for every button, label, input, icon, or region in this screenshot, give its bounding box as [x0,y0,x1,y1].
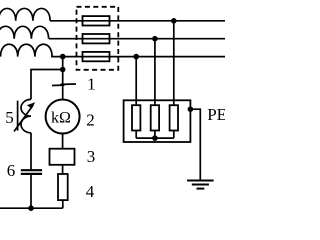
wire block 3 to resistor 4 [62,165,64,174]
wire line B (middle phase) [49,38,225,40]
wire Rc to star bus [173,131,175,139]
resistor Rb [151,105,159,130]
bottom bus wire [0,207,63,209]
ground bar 3 [197,188,205,190]
phase winding coil L2 [0,26,49,38]
svg-text:kΩ: kΩ [51,110,71,127]
wire megohmmeter to block 3 [62,134,64,149]
svg-text:1: 1 [87,75,96,94]
wire branch to the left [31,70,63,100]
node on line A [171,18,177,24]
ground bar 2 [192,184,209,186]
wire capacitor to bottom bus [30,174,32,208]
resistor 4 [58,174,68,200]
node branch junction [60,67,66,73]
wire inductor to capacitor [30,133,32,170]
drop wire from line C [135,57,137,106]
probe tick [52,84,65,86]
star point bus [136,137,174,139]
wire Rb to star bus [154,131,156,139]
megohmmeter 2 circle [46,100,80,134]
fuse block dashed enclosure 1 [77,7,119,70]
variable inductor 5 arrow [14,105,33,131]
fuse F1 [83,16,110,25]
fuse F2 [83,34,110,43]
wire line C (bottom phase) [51,56,225,58]
resistor Rc [170,105,178,130]
wire Ra to star bus [135,131,137,139]
phase winding coil L3 [1,44,53,56]
wire PE to ground [190,109,200,180]
wire from line C down to megohmmeter [62,57,64,100]
svg-text:PE: PE [207,105,225,124]
load box enclosure [124,100,191,142]
node on line B [152,36,158,42]
svg-text:3: 3 [87,147,96,166]
svg-text:2: 2 [86,111,95,130]
drop wire from line A [173,21,175,105]
variable inductor 5 core bar [17,101,19,131]
block 3 [50,149,75,165]
node capacitor bottom [28,205,34,211]
wire resistor 4 to bottom bus [62,200,64,208]
node on line C right [133,54,139,60]
node on line C [60,54,66,60]
svg-text:6: 6 [7,161,16,180]
fuse F3 [83,52,110,61]
capacitor 6 bottom plate [21,173,42,175]
drop wire from line B [154,39,156,106]
node PE terminal [188,106,194,112]
capacitor 6 top plate [21,169,42,171]
variable inductor 5 coil [21,99,31,132]
svg-text:4: 4 [86,182,95,201]
ground bar 1 [187,180,214,182]
svg-text:5: 5 [5,108,14,127]
wire line A (top phase) [50,20,225,22]
resistor Ra [132,105,140,130]
node star point [152,135,158,141]
phase winding coil L1 [0,8,50,20]
